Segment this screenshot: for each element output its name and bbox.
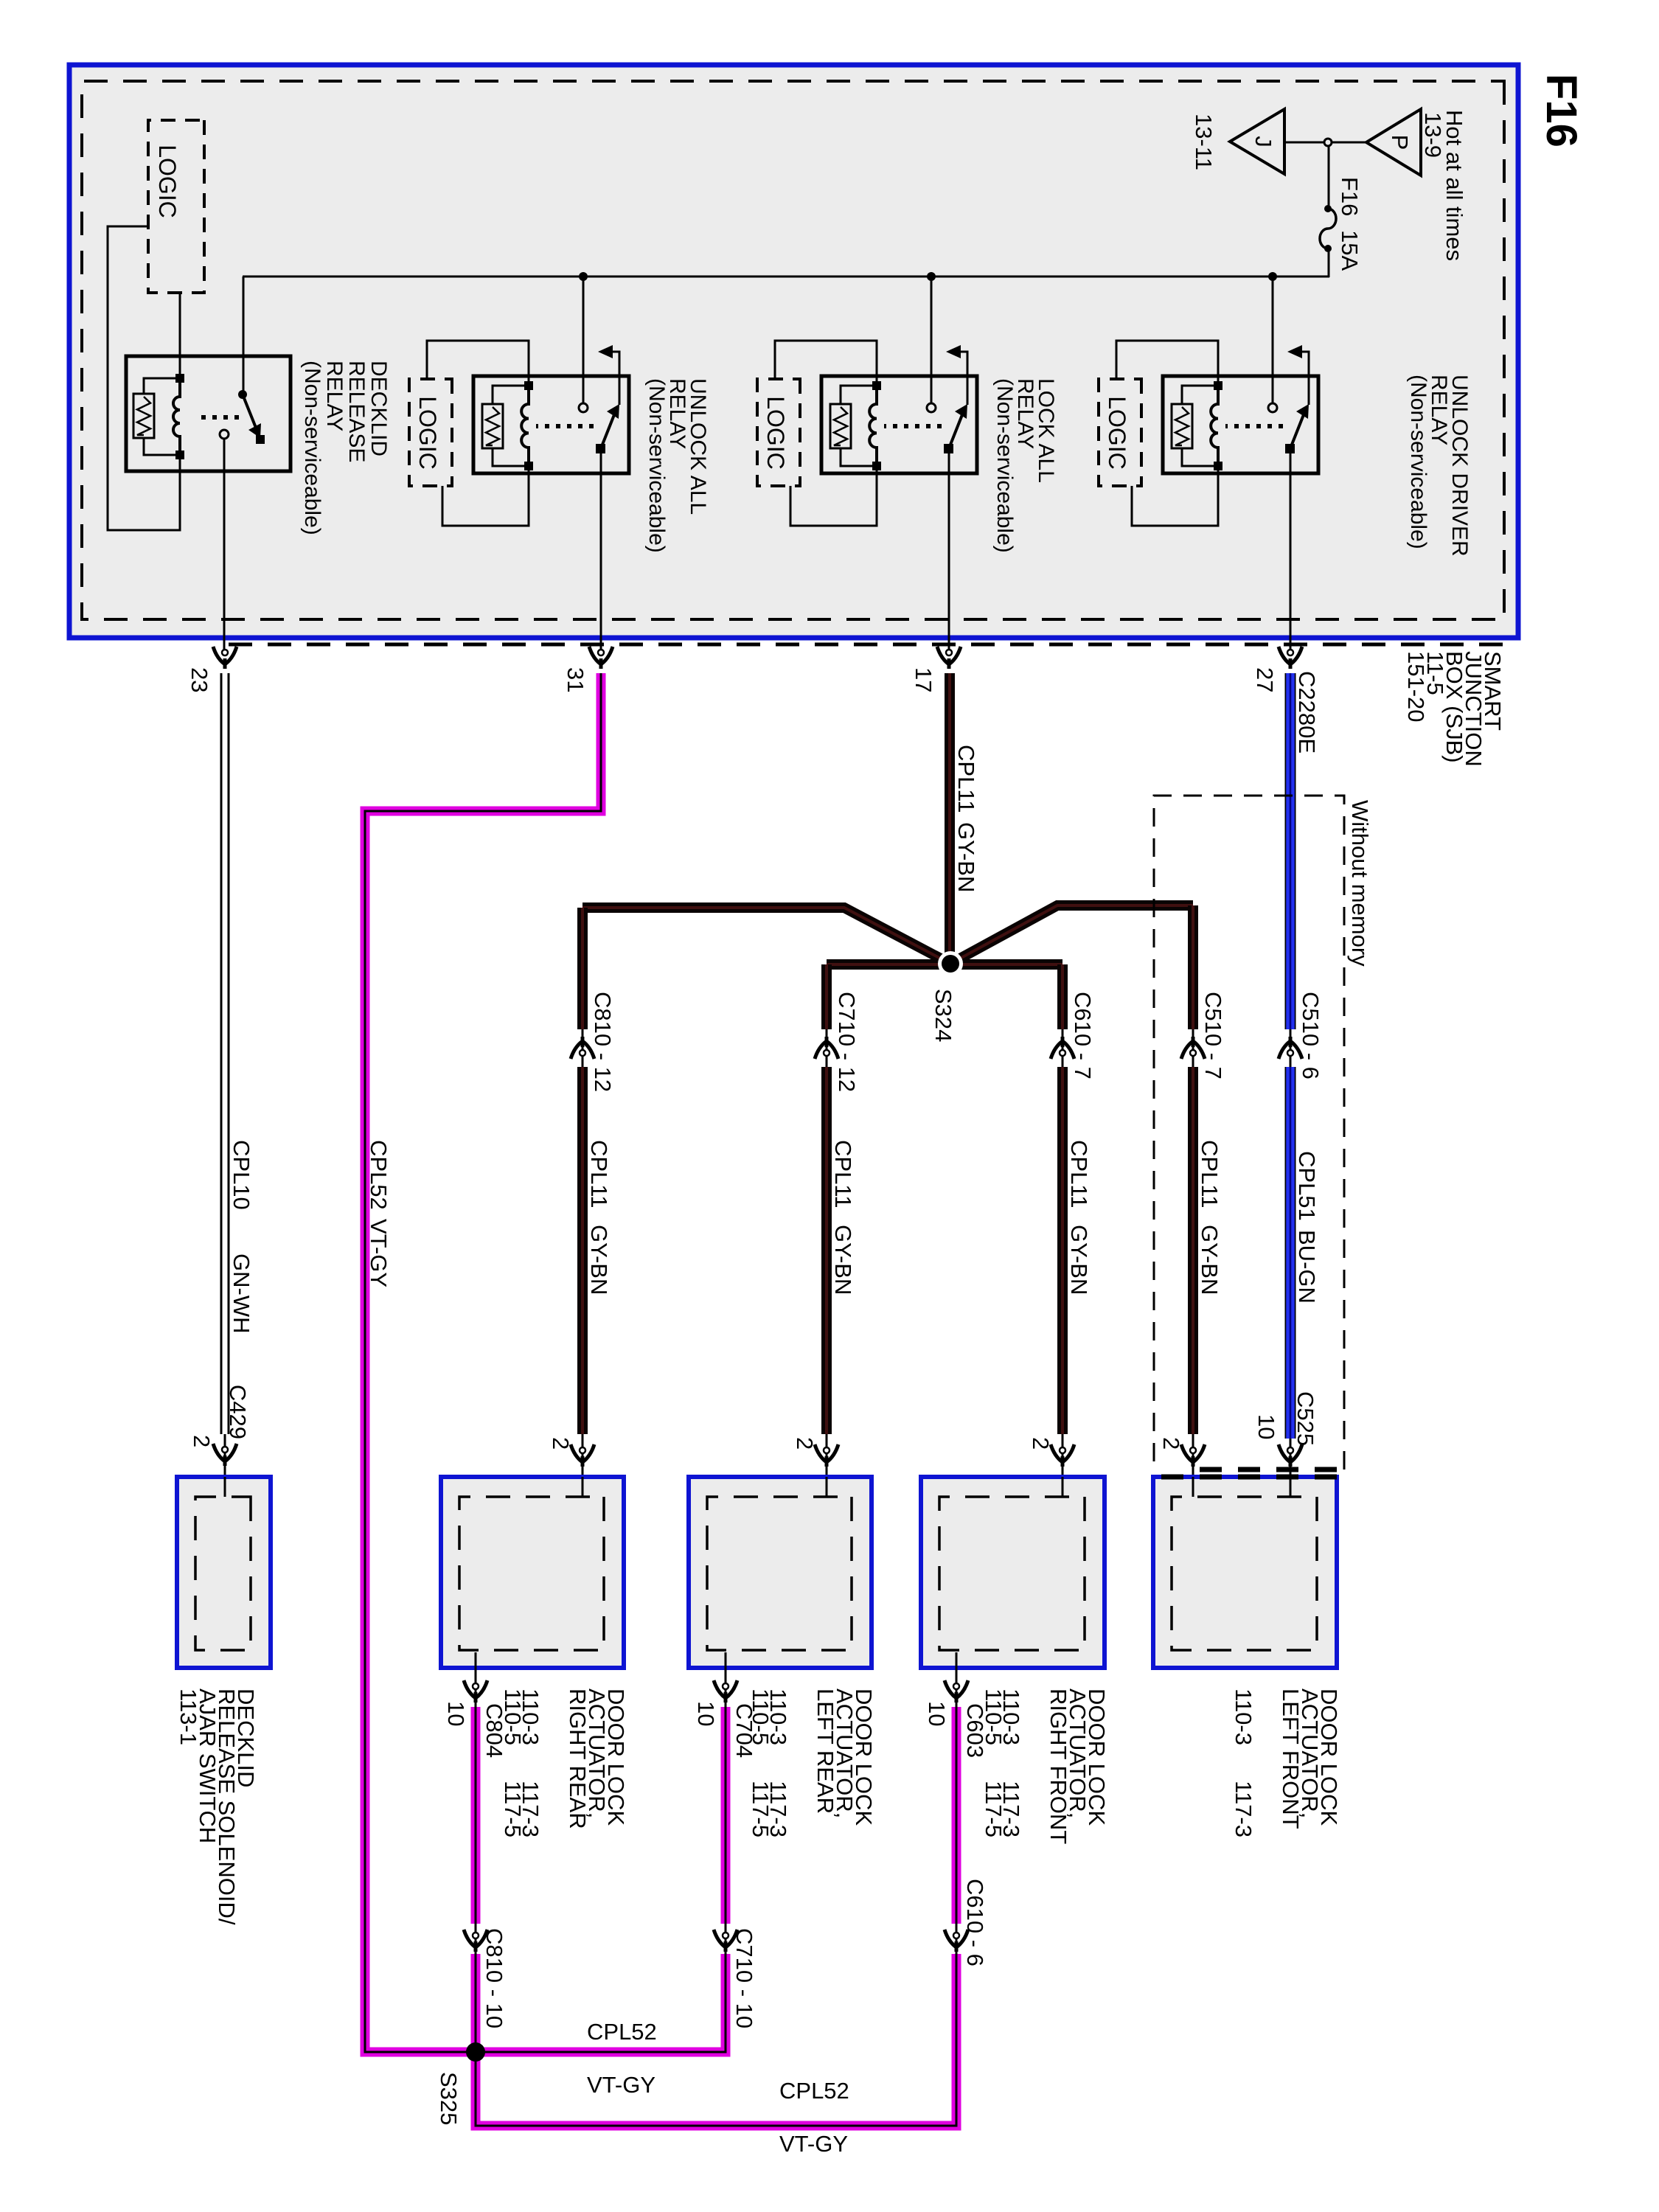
relay coil resistor — [830, 404, 851, 448]
svg-text:GN-WH: GN-WH — [229, 1253, 254, 1333]
svg-text:C710 - 12: C710 - 12 — [834, 992, 860, 1092]
SJB exit arrow pin 23 — [213, 647, 237, 664]
svg-text:P: P — [1387, 135, 1413, 150]
relay coil terminals — [175, 374, 184, 383]
coil to resistor rails — [1182, 386, 1218, 404]
relay: UNLOCK ALL RELAY — [473, 376, 629, 473]
svg-text:(Non-serviceable): (Non-serviceable) — [1406, 375, 1430, 549]
relay switch arm — [243, 394, 256, 428]
inline connector C710 - 12 — [815, 1041, 838, 1059]
wire CPL10 GN-WH (pin 23 to decklid solenoid) — [228, 673, 230, 1434]
relay switch arm — [949, 413, 963, 448]
wire stub into box — [826, 1477, 828, 1497]
SJB exit arrow pin 27 — [1279, 647, 1302, 664]
relay coil wire to LOGIC (top) — [179, 293, 181, 378]
relay NC contact circle — [579, 403, 588, 412]
bus junction — [927, 272, 936, 281]
wire CPL11 GY-BN from pin 17 to splice S324 — [945, 673, 955, 964]
component entry arrow — [1192, 1434, 1194, 1477]
svg-text:GY-BN: GY-BN — [586, 1225, 612, 1295]
svg-text:(Non-serviceable): (Non-serviceable) — [992, 378, 1017, 553]
bus junction — [1268, 272, 1277, 281]
actuator output wire at y=953 — [956, 1652, 958, 1707]
power bus inside SJB — [243, 276, 1329, 278]
wire stub into box — [582, 1477, 584, 1497]
svg-text:RIGHT FRONT: RIGHT FRONT — [1046, 1688, 1071, 1844]
splice S324 — [938, 951, 963, 976]
wire relay contact to SJB edge — [223, 439, 226, 652]
svg-text:C710 - 10: C710 - 10 — [731, 1928, 757, 2028]
svg-text:C804: C804 — [481, 1703, 507, 1758]
svg-text:2: 2 — [792, 1437, 818, 1450]
component: DOOR LOCK ACTUATOR RIGHT FRONT — [921, 1477, 1105, 1668]
svg-text:LOGIC: LOGIC — [1104, 396, 1130, 470]
svg-text:C704: C704 — [731, 1703, 757, 1758]
relay armature dotted link — [536, 424, 594, 428]
SJB exit arrow pin 31 — [589, 647, 613, 664]
svg-text:2: 2 — [1158, 1437, 1184, 1450]
relay coil wire to LOGIC (left) — [427, 341, 529, 386]
relay NC contact circle — [927, 403, 936, 412]
wire bus to relay contact — [582, 276, 585, 403]
actuator output wire at y=1605 — [475, 1652, 477, 1707]
svg-text:Without memory: Without memory — [1347, 800, 1373, 967]
svg-text:117-5: 117-5 — [500, 1781, 526, 1837]
inline connector C810 - 10 — [464, 1930, 487, 1947]
wire stub into box — [1062, 1477, 1064, 1497]
relay coil resistor — [482, 404, 503, 448]
svg-text:2: 2 — [1028, 1437, 1054, 1450]
inline connector C510 - 7 — [1181, 1041, 1205, 1059]
relay: UNLOCK DRIVER RELAY — [1163, 376, 1318, 473]
relay armature dotted link — [884, 424, 942, 428]
svg-text:31: 31 — [563, 667, 588, 692]
wire relay pivot to SJB edge — [948, 453, 950, 652]
inline connector C810 - 12 — [571, 1041, 594, 1059]
SJB inner dashed border — [82, 81, 1504, 619]
svg-text:J: J — [1251, 136, 1276, 147]
relay switch pivot — [596, 444, 605, 453]
wire bus to relay contact — [931, 276, 933, 403]
relay switch arm — [601, 413, 615, 448]
relay coil wire to LOGIC (left) — [775, 341, 877, 386]
svg-text:GY-BN: GY-BN — [1197, 1225, 1222, 1295]
SJB outer dashed boundary line — [224, 643, 1503, 647]
svg-text:113-1: 113-1 — [175, 1688, 201, 1745]
svg-text:VT-GY: VT-GY — [366, 1219, 392, 1287]
svg-text:RELEASE: RELEASE — [344, 361, 369, 462]
wire relay pivot to SJB edge — [1290, 453, 1292, 652]
relay coil terminals — [1214, 381, 1222, 390]
component: DOOR LOCK ACTUATOR LEFT FRONT — [1153, 1477, 1337, 1668]
svg-text:VT-GY: VT-GY — [779, 2131, 848, 2157]
component entry arrow — [826, 1434, 828, 1477]
svg-text:17: 17 — [911, 667, 936, 692]
wire CPL11 GY-BN branch at y=1129 — [821, 964, 832, 1029]
svg-text:117-3: 117-3 — [1231, 1781, 1256, 1837]
svg-text:C603: C603 — [962, 1703, 988, 1758]
actuator output wire at y=1266 — [725, 1652, 727, 1707]
svg-text:10: 10 — [693, 1701, 719, 1726]
svg-text:2: 2 — [189, 1435, 215, 1447]
relay NC contact circle — [1268, 403, 1277, 412]
svg-text:151-20: 151-20 — [1403, 651, 1429, 723]
svg-text:GY-BN: GY-BN — [953, 822, 979, 892]
svg-text:C510 - 7: C510 - 7 — [1200, 992, 1226, 1079]
svg-text:13-11: 13-11 — [1191, 114, 1217, 170]
relay coil inductor — [173, 378, 180, 455]
fuse F16 15A — [1320, 209, 1336, 248]
svg-text:CPL10: CPL10 — [229, 1140, 254, 1210]
wire junction to J — [1284, 142, 1324, 144]
svg-text:S325: S325 — [436, 2072, 462, 2125]
coil to resistor rails — [841, 386, 877, 404]
relay coil inductor — [521, 386, 529, 466]
svg-text:CPL11: CPL11 — [830, 1140, 856, 1208]
coil to resistor rails — [144, 378, 180, 394]
Without memory dashed region — [1154, 796, 1344, 1470]
svg-text:RELAY: RELAY — [322, 361, 347, 431]
relay coil wire to LOGIC (right) — [790, 466, 877, 526]
wire junction to fuse — [1328, 146, 1330, 209]
inline connector C710 - 10 — [714, 1930, 737, 1947]
wire CPL52 VT-GY from pin 31 to splice S325 — [365, 673, 601, 2052]
svg-text:2: 2 — [548, 1437, 574, 1450]
svg-text:27: 27 — [1252, 667, 1278, 692]
svg-text:117-5: 117-5 — [981, 1781, 1006, 1837]
relay switch pivot — [238, 390, 247, 399]
svg-text:CPL52: CPL52 — [366, 1140, 392, 1210]
svg-text:C810 - 10: C810 - 10 — [481, 1928, 507, 2028]
svg-text:CPL51: CPL51 — [1294, 1151, 1320, 1221]
relay coil wire to LOGIC (right) — [442, 466, 529, 526]
LOGIC box — [1099, 379, 1141, 486]
SJB exit arrow pin 17 — [937, 647, 961, 664]
svg-text:DECKLID: DECKLID — [366, 361, 391, 456]
relay switch pivot — [1285, 444, 1295, 453]
smart junction box (SJB) outline — [69, 65, 1518, 638]
svg-text:GY-BN: GY-BN — [830, 1225, 856, 1295]
splice S325 — [466, 2042, 485, 2062]
relay coil wire to LOGIC (left) — [1116, 341, 1218, 386]
relay NO contact and spring arrow — [607, 352, 619, 405]
inline connector C510 - 6 — [1290, 1029, 1292, 1067]
svg-text:117-5: 117-5 — [748, 1781, 773, 1837]
svg-text:10: 10 — [1253, 1414, 1279, 1439]
S324 branch vertical (left rear / right front) — [827, 959, 1062, 970]
relay NC contact circle — [220, 430, 229, 439]
relay coil terminals — [872, 381, 881, 390]
svg-text:F16: F16 — [1337, 177, 1363, 216]
svg-text:10: 10 — [443, 1701, 469, 1726]
wire P apex to junction — [1332, 142, 1366, 144]
svg-text:110-3: 110-3 — [1231, 1688, 1256, 1745]
wire CPL11 GY-BN branch at y=632 — [1188, 905, 1198, 1029]
svg-text:10: 10 — [924, 1701, 950, 1726]
bus junction — [579, 272, 588, 281]
relay NO contact and spring arrow — [1296, 352, 1309, 405]
LOGIC box decklid — [148, 120, 204, 293]
svg-text:GY-BN: GY-BN — [1066, 1225, 1092, 1295]
wire stub into box (pin 10) — [1290, 1477, 1292, 1497]
svg-text:LOGIC: LOGIC — [154, 145, 181, 218]
svg-text:23: 23 — [187, 667, 212, 692]
svg-text:(Non-serviceable): (Non-serviceable) — [644, 378, 669, 553]
svg-text:VT-GY: VT-GY — [587, 2072, 655, 2098]
svg-text:15A: 15A — [1337, 230, 1363, 271]
svg-text:CPL52: CPL52 — [587, 2019, 657, 2045]
inline connector C610 - 6 — [945, 1930, 968, 1947]
page triangle J — [1230, 109, 1284, 174]
component: DOOR LOCK ACTUATOR RIGHT REAR — [441, 1477, 624, 1668]
wire stub into box — [224, 1477, 226, 1497]
svg-text:F16: F16 — [1537, 74, 1585, 147]
svg-text:LEFT REAR: LEFT REAR — [813, 1688, 838, 1814]
relay coil inductor — [1211, 386, 1218, 466]
junction node circle — [1324, 139, 1332, 146]
relay switch pivot — [944, 444, 953, 453]
svg-text:C525: C525 — [1293, 1391, 1318, 1446]
svg-text:13-9: 13-9 — [1420, 112, 1446, 158]
wire CPL11 GY-BN branch at y=809 — [1057, 964, 1068, 1029]
svg-text:CPL11: CPL11 — [953, 745, 979, 813]
coil to resistor rails — [493, 386, 529, 404]
wire CPL11 GY-BN branch at y=1460 — [577, 908, 588, 1029]
svg-text:CPL11: CPL11 — [1197, 1140, 1222, 1208]
svg-text:RIGHT REAR: RIGHT REAR — [565, 1688, 591, 1829]
power triangle P — [1366, 109, 1421, 175]
wire stub into box (pin 2) — [1192, 1477, 1194, 1497]
relay coil terminals — [524, 381, 533, 390]
relay NO contact and spring arrow — [955, 352, 967, 405]
LOGIC box — [409, 379, 452, 486]
svg-text:(Non-serviceable): (Non-serviceable) — [300, 361, 324, 535]
component: DECKLID RELEASE SOLENOID/AJAR SWITCH — [177, 1477, 271, 1668]
wire bus to relay pivot — [243, 276, 245, 394]
svg-text:C429: C429 — [225, 1385, 251, 1439]
svg-text:C610 - 6: C610 - 6 — [962, 1879, 988, 1966]
S324 branch diagonal to left front — [950, 905, 1193, 964]
svg-text:C510 - 6: C510 - 6 — [1298, 992, 1324, 1079]
inline connector C610 - 7 — [1051, 1041, 1074, 1059]
svg-text:LEFT FRONT: LEFT FRONT — [1278, 1688, 1304, 1829]
svg-text:S324: S324 — [931, 989, 956, 1042]
relay coil resistor — [133, 394, 154, 438]
svg-text:CPL52: CPL52 — [779, 2078, 849, 2104]
relay switch arm — [1290, 413, 1304, 448]
component entry arrow — [1062, 1434, 1064, 1477]
svg-text:C810 - 12: C810 - 12 — [590, 992, 616, 1092]
relay coil resistor — [1172, 404, 1192, 448]
wire bus to relay contact — [1272, 276, 1274, 403]
relay armature dotted link — [1225, 424, 1283, 428]
svg-text:LOGIC: LOGIC — [414, 396, 441, 470]
component entry arrow — [582, 1434, 584, 1477]
svg-text:CPL11: CPL11 — [586, 1140, 612, 1208]
relay coil wire loop to LOGIC (bottom) — [108, 226, 180, 530]
relay coil inductor — [869, 386, 877, 466]
wire CPL51 BU-GN from pin 27 — [1285, 673, 1296, 1029]
S324 branch diagonal to right rear — [582, 908, 950, 964]
LOGIC box — [757, 379, 800, 486]
svg-text:BU-GN: BU-GN — [1294, 1230, 1320, 1304]
relay coil wire to LOGIC (right) — [1132, 466, 1218, 526]
wire fuse to bus — [1328, 248, 1330, 277]
wire relay pivot to SJB edge — [600, 453, 602, 652]
svg-text:C610 - 7: C610 - 7 — [1070, 992, 1096, 1079]
relay: DECKLID RELEASE RELAY — [126, 356, 291, 471]
relay: LOCK ALL RELAY — [821, 376, 977, 473]
svg-text:LOGIC: LOGIC — [762, 396, 789, 470]
svg-text:C2280E: C2280E — [1294, 671, 1320, 754]
relay armature dotted link — [195, 415, 239, 420]
svg-text:CPL11: CPL11 — [1066, 1140, 1092, 1208]
component: DOOR LOCK ACTUATOR LEFT REAR — [689, 1477, 872, 1668]
